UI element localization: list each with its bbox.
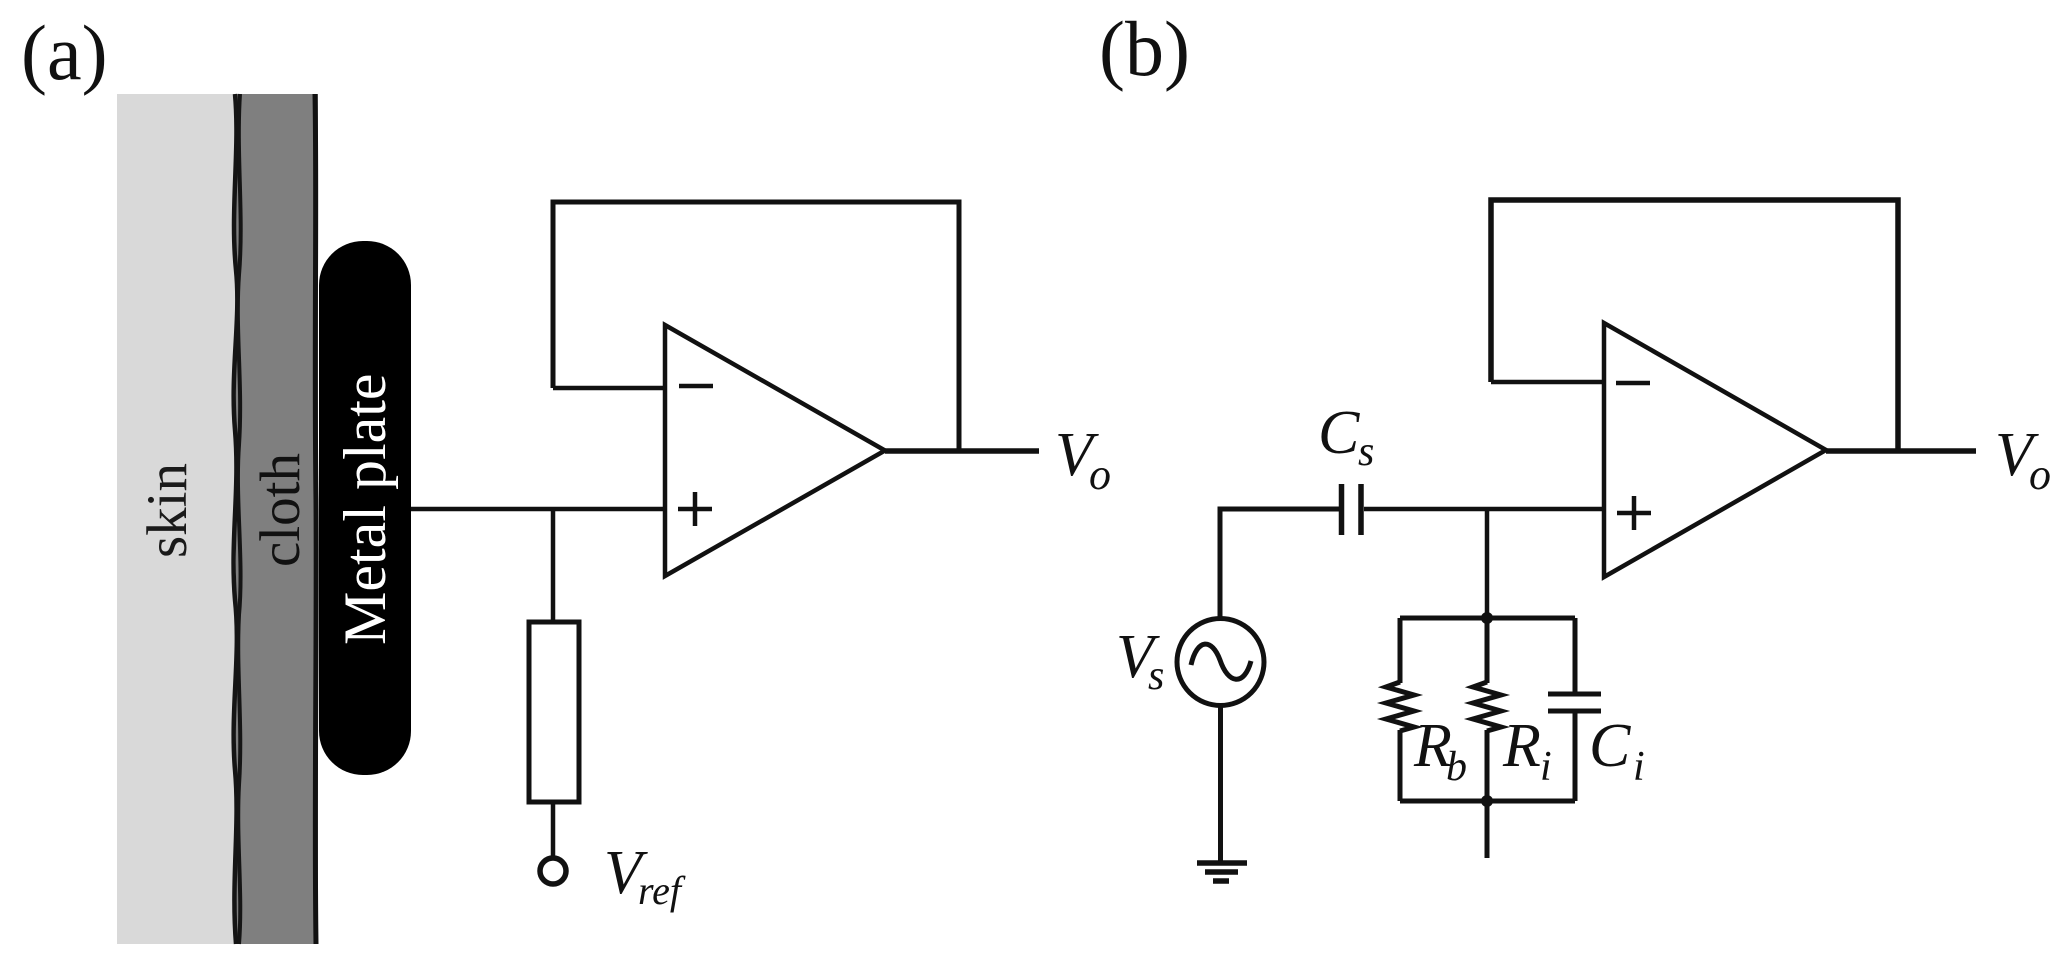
- svg-text:i: i: [1540, 744, 1552, 790]
- svg-text:ref: ref: [638, 868, 686, 913]
- svg-text:(b): (b): [1099, 5, 1190, 92]
- svg-text:R: R: [1502, 712, 1541, 780]
- svg-text:(a): (a): [21, 9, 108, 96]
- svg-text:s: s: [1358, 429, 1374, 475]
- svg-text:cloth: cloth: [249, 453, 312, 567]
- svg-text:skin: skin: [136, 463, 199, 558]
- svg-text:i: i: [1633, 744, 1645, 790]
- svg-text:C: C: [1318, 399, 1360, 467]
- svg-text:s: s: [1148, 653, 1164, 699]
- svg-text:b: b: [1446, 744, 1467, 790]
- svg-text:Metal plate: Metal plate: [332, 373, 398, 645]
- svg-text:C: C: [1589, 712, 1631, 780]
- svg-text:o: o: [1089, 450, 1111, 499]
- svg-text:o: o: [2029, 450, 2051, 499]
